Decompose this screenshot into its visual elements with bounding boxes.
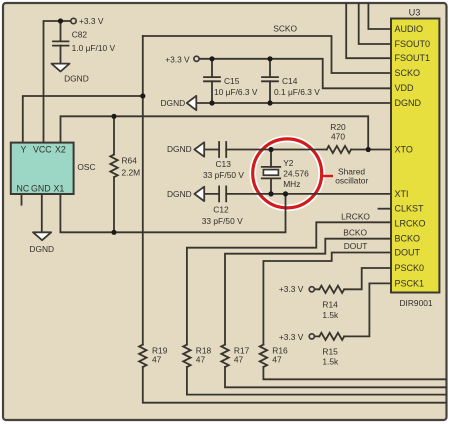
svg-text:NC: NC [17,184,30,194]
svg-text:DGND: DGND [167,189,192,199]
svg-text:1.5k: 1.5k [322,310,339,320]
svg-text:U3: U3 [409,8,421,18]
svg-text:2.2M: 2.2M [122,168,141,178]
svg-text:DGND: DGND [161,98,186,108]
svg-text:BCKO: BCKO [343,228,367,238]
svg-text:SCKO: SCKO [273,24,297,34]
svg-text:LRCKO: LRCKO [395,218,426,228]
svg-text:Y: Y [21,145,27,155]
svg-text:X1: X1 [54,184,65,194]
svg-text:DOUT: DOUT [344,241,368,251]
svg-text:DOUT: DOUT [395,248,421,258]
svg-text:DGND: DGND [167,144,192,154]
svg-text:VCC: VCC [33,145,52,155]
svg-text:DGND: DGND [395,98,422,108]
svg-text:FSOUT1: FSOUT1 [395,53,431,63]
svg-text:47: 47 [196,355,206,365]
svg-text:+3.3 V: +3.3 V [165,55,190,65]
svg-text:R15: R15 [322,347,338,357]
svg-text:MHz: MHz [283,179,300,189]
svg-text:PSCK0: PSCK0 [395,263,425,273]
svg-text:C12: C12 [213,205,229,215]
svg-text:AUDIO: AUDIO [395,24,424,34]
svg-text:X2: X2 [55,145,66,155]
svg-text:R14: R14 [322,300,338,310]
svg-text:BCKO: BCKO [395,234,421,244]
svg-text:R64: R64 [122,156,138,166]
svg-text:DGND: DGND [64,74,89,84]
svg-text:+3.3 V: +3.3 V [279,284,304,294]
svg-text:C15: C15 [224,76,240,86]
svg-text:C14: C14 [282,76,298,86]
svg-text:+3.3 V: +3.3 V [79,16,104,26]
svg-text:1.5k: 1.5k [322,357,339,367]
svg-text:SCKO: SCKO [395,68,421,78]
svg-text:XTO: XTO [395,145,413,155]
svg-text:VDD: VDD [395,83,415,93]
svg-text:47: 47 [234,355,244,365]
svg-text:PSCK1: PSCK1 [395,278,425,288]
svg-text:OSC: OSC [77,162,95,172]
svg-text:+3.3 V: +3.3 V [279,332,304,342]
svg-text:10 μF/6.3 V: 10 μF/6.3 V [214,87,258,97]
svg-text:24.576: 24.576 [283,169,309,179]
svg-text:33 pF/50 V: 33 pF/50 V [202,216,243,226]
svg-text:DIR9001: DIR9001 [400,298,433,308]
svg-text:0.1 μF/6.3 V: 0.1 μF/6.3 V [274,87,320,97]
svg-text:oscillator: oscillator [335,176,368,186]
svg-text:R20: R20 [330,122,346,132]
svg-text:C82: C82 [72,30,88,40]
svg-text:CLKST: CLKST [395,204,425,214]
svg-text:47: 47 [272,355,282,365]
svg-text:DGND: DGND [29,244,54,254]
svg-text:1.0 μF/10 V: 1.0 μF/10 V [72,43,116,53]
svg-text:XTI: XTI [395,189,409,199]
svg-text:Y2: Y2 [283,158,294,168]
svg-text:C13: C13 [216,159,232,169]
svg-text:FSOUT0: FSOUT0 [395,39,431,49]
svg-text:LRCKO: LRCKO [341,212,370,222]
svg-text:470: 470 [331,132,345,142]
svg-text:33 pF/50 V: 33 pF/50 V [203,170,244,180]
svg-text:GND: GND [31,184,51,194]
svg-text:47: 47 [152,355,162,365]
